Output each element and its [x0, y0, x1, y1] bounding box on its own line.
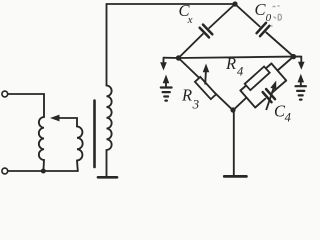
svg-text:4: 4	[285, 110, 291, 124]
svg-text:3: 3	[192, 97, 200, 112]
svg-text:R: R	[181, 86, 192, 105]
svg-text:0: 0	[266, 12, 272, 24]
svg-text:4: 4	[237, 64, 243, 78]
svg-text:x: x	[187, 14, 193, 26]
svg-text:R: R	[225, 54, 236, 73]
